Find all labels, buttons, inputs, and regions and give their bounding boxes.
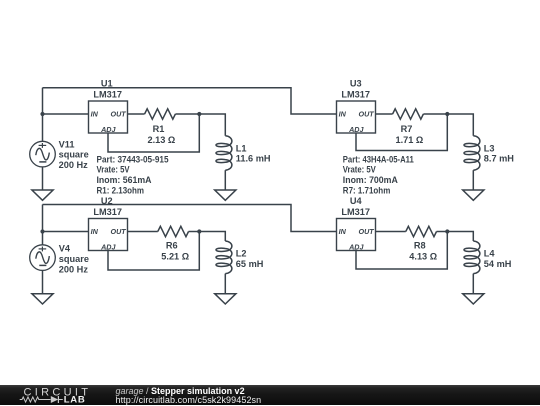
voltage source V4	[30, 245, 56, 271]
wire left vertical from rail2 to V4	[42, 205, 44, 245]
op-amp U4 LM317 regulator box	[337, 219, 376, 251]
svg-text:200 Hz: 200 Hz	[59, 264, 89, 274]
wire ADJ feedback U4	[356, 232, 447, 270]
svg-text:Inom: 700mA: Inom: 700mA	[343, 175, 398, 185]
svg-text:R1: 2.13ohm: R1: 2.13ohm	[97, 185, 145, 195]
ground under L4	[463, 294, 484, 304]
svg-text:Inom: 561mA: Inom: 561mA	[97, 175, 152, 185]
svg-text:U2: U2	[101, 196, 113, 206]
svg-text:V4: V4	[59, 244, 71, 254]
wire U4 OUT to R8	[376, 231, 406, 233]
svg-text:R8: R8	[414, 241, 426, 251]
svg-text:LAB: LAB	[64, 395, 86, 405]
wire U3 OUT to R7	[376, 113, 393, 115]
svg-text:OUT: OUT	[359, 110, 375, 119]
svg-text:Part: 37443-05-915: Part: 37443-05-915	[97, 154, 169, 164]
svg-text:R7: 1.71ohm: R7: 1.71ohm	[343, 185, 391, 195]
svg-text:54 mH: 54 mH	[484, 259, 512, 269]
wire L3 to ground	[472, 170, 474, 190]
svg-text:4.13 Ω: 4.13 Ω	[409, 252, 437, 262]
svg-text:L3: L3	[484, 143, 495, 153]
wire ADJ feedback U1	[108, 114, 199, 152]
resistor R6	[158, 226, 189, 236]
svg-text:5.21 Ω: 5.21 Ω	[161, 252, 189, 262]
resistor R8	[406, 226, 437, 236]
svg-text:2.13 Ω: 2.13 Ω	[147, 135, 175, 145]
svg-text:OUT: OUT	[111, 110, 127, 119]
wire U1 OUT to R1	[128, 113, 145, 115]
svg-text:L4: L4	[484, 249, 496, 259]
svg-text:LM317: LM317	[341, 89, 370, 99]
wire V11 node to U1 IN	[43, 113, 89, 115]
svg-text:11.6 mH: 11.6 mH	[236, 153, 271, 163]
op-amp U3 LM317 regulator box	[337, 101, 376, 133]
svg-text:U3: U3	[350, 79, 362, 89]
footer bar	[0, 385, 540, 405]
wire L4 to ground	[472, 274, 474, 294]
inductor L4	[464, 241, 480, 274]
wire R6 to L2 top corner	[189, 232, 226, 242]
svg-text:V11: V11	[59, 139, 75, 149]
voltage source V11	[30, 141, 56, 167]
node junction R7/L3/ADJ feedback	[445, 112, 449, 116]
svg-text:R7: R7	[401, 124, 413, 134]
node junction R8/L4/ADJ feedback	[445, 229, 449, 233]
node junction at V11/IN	[40, 112, 44, 116]
wire ADJ feedback U3	[356, 114, 447, 151]
op-amp U2 LM317 regulator box	[89, 219, 128, 251]
wire R8 to L4 top corner	[437, 232, 474, 242]
inductor L1	[216, 136, 232, 170]
svg-text:ADJ: ADJ	[348, 125, 364, 134]
svg-text:square: square	[59, 254, 89, 264]
wire L1 to ground	[224, 170, 226, 190]
wire second rail from V4 node to U4 IN	[43, 205, 337, 232]
op-amp U1 LM317 regulator box	[89, 101, 128, 133]
svg-text:R6: R6	[166, 241, 178, 251]
node junction at V4/IN	[40, 229, 44, 233]
svg-text:Vrate: 5V: Vrate: 5V	[343, 165, 377, 175]
svg-text:L1: L1	[236, 143, 247, 153]
inductor L3	[464, 136, 480, 170]
svg-text:LM317: LM317	[93, 207, 122, 217]
ground under L1	[215, 190, 236, 200]
wire V4 to ground	[42, 270, 44, 293]
svg-text:ADJ: ADJ	[348, 243, 364, 252]
svg-text:U1: U1	[101, 79, 113, 89]
wire R1 to L1 top corner	[175, 114, 225, 136]
svg-text:IN: IN	[339, 110, 347, 119]
svg-text:65 mH: 65 mH	[236, 259, 264, 269]
ground under L3	[463, 190, 484, 200]
svg-text:LM317: LM317	[93, 89, 122, 99]
svg-text:8.7 mH: 8.7 mH	[484, 153, 514, 163]
svg-text:IN: IN	[339, 227, 347, 236]
svg-text:square: square	[59, 150, 89, 160]
svg-text:Vrate: 5V: Vrate: 5V	[97, 165, 131, 175]
node junction R6/L2/ADJ feedback	[197, 229, 201, 233]
wire L2 to ground	[224, 274, 226, 294]
svg-text:LM317: LM317	[341, 207, 370, 217]
svg-text:1.71 Ω: 1.71 Ω	[395, 135, 423, 145]
svg-text:U4: U4	[350, 196, 363, 206]
wire ADJ feedback U2	[108, 232, 199, 271]
wire left vertical from rail to V11	[42, 88, 44, 142]
svg-text:L2: L2	[236, 249, 247, 259]
ground under V4	[32, 294, 53, 304]
footer caption text	[116, 385, 262, 406]
wire U2 OUT to R6	[128, 231, 158, 233]
ground under L2	[215, 294, 236, 304]
wire R7 to L3 top corner	[423, 114, 473, 136]
svg-text:OUT: OUT	[359, 227, 375, 236]
resistor R1	[145, 109, 176, 119]
CircuitLab logo	[0, 385, 110, 405]
svg-text:ADJ: ADJ	[100, 125, 116, 134]
resistor R7	[393, 109, 424, 119]
svg-text:OUT: OUT	[111, 227, 127, 236]
node junction R1/L1/ADJ feedback	[197, 112, 201, 116]
svg-text:IN: IN	[91, 227, 99, 236]
ground under V11	[32, 190, 53, 200]
svg-text:Part: 43H4A-05-A11: Part: 43H4A-05-A11	[343, 154, 414, 164]
svg-text:200 Hz: 200 Hz	[59, 160, 89, 170]
svg-text:ADJ: ADJ	[100, 243, 116, 252]
wire V11 to ground	[42, 167, 44, 190]
wire V4 node to U2 IN	[43, 231, 89, 233]
svg-text:IN: IN	[91, 110, 99, 119]
svg-text:R1: R1	[153, 124, 165, 134]
inductor L2	[216, 241, 232, 274]
wire top rail from V11 node to U3 IN	[43, 88, 337, 114]
